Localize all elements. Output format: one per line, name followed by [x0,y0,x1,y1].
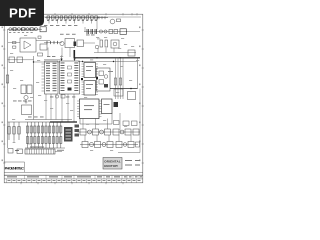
opto U14 [95,142,101,148]
net arrow into bank B (right) [74,56,76,61]
ladder column 5 [41,122,43,148]
wire left group bus [8,121,26,123]
transformer T101 secondary [27,85,32,94]
capacitor C131 [38,53,43,56]
capacitor C160 (dark) inside U7 [104,84,108,88]
transistor Q101 [60,41,64,45]
resistor R160 inside U7 [99,71,104,76]
row2 text entries [8,180,141,181]
opto U13 [82,142,88,148]
label right of CN3 [57,149,64,152]
zone tick marks left border [3,30,5,163]
small box J2 [17,149,23,154]
opto U11 [80,129,86,135]
jumper box J1 [8,149,13,154]
resistor R201 [117,19,121,22]
zone tick marks top border [21,13,137,15]
label text below bank [50,96,75,99]
filter box FL101 [40,27,46,32]
left small box K1 [9,57,15,63]
IC U7 internal label [108,71,113,72]
capacitor row C201-C203 top right [84,31,127,33]
value labels under top resistor string [47,19,97,22]
ground symbol near transformer [25,100,28,103]
ladder column 6 [45,122,47,148]
wire: output chain rail 2 [80,144,138,146]
opto U12 [93,129,99,135]
transistor Q202 [113,42,117,46]
bridge rectifier BD201 [111,40,119,48]
junction dots central [33,57,121,63]
svg-text:PHOENIXTEC: PHOENIXTEC [5,167,25,171]
connector bank CN102 outline [60,61,80,94]
wire to right frame [126,31,140,33]
wire: right vertical drop [137,58,139,89]
title block third line [4,178,143,180]
svg-text:ORIENTAL: ORIENTAL [104,159,121,163]
label row mid [60,34,95,36]
wire joining left boxes [8,59,34,61]
decoupling caps (dark) near U4/U5 [81,77,98,80]
inductor L201 [109,30,113,34]
wire: top right drop [96,18,98,30]
CN102 pin ladder column 1 [61,63,65,91]
wire: central rail B [34,61,61,63]
title block top line [4,171,143,173]
net arrow into bank B (left) [61,56,63,61]
IC U10 internal label [104,104,110,105]
row2 cell dividers [7,179,137,183]
transformer T101 primary [21,85,26,94]
diode D202 [104,30,107,33]
label TVF [15,150,19,151]
PDF badge [0,0,44,26]
zone tick marks bottom border [21,182,123,184]
relay RY201 [120,29,126,35]
caption above CN3 [30,146,44,149]
sense box R223 [114,89,123,96]
net label text left of arrows [47,55,55,58]
svg-text:PDF: PDF [9,6,36,21]
ladder column 3 [34,122,36,148]
small caption row under chain [44,24,77,27]
relay box RY101 [22,105,32,115]
stamp box (distributor) [103,158,122,170]
resistor R211 [100,40,103,47]
wire: mid rail [44,42,62,44]
control sub-circuit box U101 [20,38,36,52]
bottom bus of ladder [25,147,65,149]
connector block CN2 (dark) [64,127,73,142]
scattered reference designator texts [10,35,139,151]
wire out of U101 [36,40,50,42]
zone letters left border [2,27,3,162]
wire: left vertical rail [7,29,9,148]
connector CN301 [125,129,131,135]
resistor R161 inside U7 [99,80,104,85]
value labels under left chain [9,31,33,34]
sheet outer border frame [4,14,143,183]
wire from CN3 [55,151,62,153]
relay RY304 [116,142,122,148]
ladder column 7 [49,122,51,148]
resistor network RN101 [77,40,84,47]
wire: vertical net group right of U7 [116,58,124,99]
snubber box RC201 [128,50,135,56]
wire: central rail A [44,59,60,61]
wire: top input rail [45,17,99,19]
resistor R221 [114,78,116,85]
wire: right mid rail [94,52,136,54]
stacked modules M1-M3 left of chain [75,125,80,137]
caption above ladder [28,116,44,119]
wire drops to bus [98,48,114,53]
connector CN303 [128,142,134,148]
IC U10 [102,99,113,114]
fuse/resistor string F101 R121-R126 [9,28,38,31]
resistor R222 [119,78,121,85]
wire: riser to cap row [84,27,86,32]
power bus (heavy) [75,57,140,59]
wire drops into chain 1 [83,119,108,130]
IC U4 internal label [84,66,113,110]
sheet inner border line (top) [4,16,141,18]
connector CN302 [133,129,139,135]
resistor R231 [123,121,129,126]
signal bus y88 [110,88,138,90]
transistor Q103 below bank [55,95,58,98]
ladder column 1 [26,122,28,148]
CN101 external pins [42,64,45,91]
relay RY302 [113,129,119,135]
zone tick marks right border [142,30,144,163]
ladder column 8 [52,122,54,148]
driver box U8 [128,92,136,100]
routing loop under MCU [80,114,112,125]
CN102 pin ladder column 2 [74,63,78,91]
wire: left input rail [8,28,43,30]
zone letters right border [139,27,140,162]
wire: vertical net x120 [119,113,121,130]
wire into U101 [8,42,20,44]
MCU U9 [80,99,100,119]
wire under chain 2 [118,152,140,154]
wire: output chain rail 1 [78,131,141,133]
transistor Q203 [95,45,99,49]
transistor Q204 inside U7 [104,75,108,79]
title block second line [4,174,143,176]
junction node on bus [130,88,132,90]
resistor R150 below bank [61,95,65,99]
capacitor bank C141-C144 [47,41,58,44]
transistor Q304 [90,143,94,147]
ladder column 4 [38,122,40,148]
resistor R132 [13,46,16,48]
wire stubs below mid rail [48,48,70,58]
CN101 pin ladder column 1 [46,63,50,91]
crystal X1 (dark) [114,102,119,107]
ladder column 10 [60,122,62,148]
transistor Q102 [24,95,28,99]
series bars between elements [13,28,34,31]
resistor R141 on left rail [6,75,8,83]
IC U4 [84,63,96,78]
transistor Q306 [123,143,127,147]
wire stubs dropping from top rail [49,19,92,24]
wires from banks down to ladder bus [46,94,74,122]
resistor R212 [105,40,108,47]
regulator U103 [65,39,75,48]
heat-sink bar (dark) [74,50,76,58]
links between chain rows [85,135,131,142]
relay RY301 [105,129,111,135]
resistor R232 [132,121,138,126]
connector bank CN101 outline [45,61,59,94]
transistor Q305 [102,143,106,147]
ground symbol below ladder left [13,140,16,143]
left resistors R301 R302 R303 [8,122,20,140]
diode D201 [99,30,102,33]
op-amp U101A triangle [24,41,31,49]
inductor L202 [114,30,118,34]
bus above ladder [25,119,72,121]
transistor Q201 [110,19,115,24]
diode pair D101 [38,36,41,38]
row1 cell dividers [25,175,140,179]
wire RN101 to right [84,42,96,44]
resistor R131 [13,42,16,44]
sensor box U104 [17,57,23,63]
U4/U5 pin stubs [82,64,99,95]
transistor Q302 [100,130,104,134]
ladder column 9 [56,122,58,148]
IC U5 internal label [86,84,93,85]
resistor R230 [114,121,120,125]
svg-text:ENOTOP!: ENOTOP! [104,164,118,168]
comparator box U102 [40,44,47,50]
notes right of stamp [125,160,140,166]
CN101 pin ladder column 2 [53,63,57,91]
label text row [13,100,32,103]
resistor string R101-R112 along top rail [47,16,98,19]
ladder column 2 [30,122,32,148]
relay RY303 [107,142,113,148]
secondary bus [78,61,138,63]
capacitor C145 (dark) [74,42,77,47]
row1 text entries [7,176,142,177]
top-right capacitors C204 C205 [97,16,108,19]
wire: long vertical net at x33 [33,56,35,120]
driver stage box U7 [97,68,111,91]
transistor Q303 [120,130,124,134]
CN102 interior parts [68,66,72,83]
connector CN3 pin strip [25,149,55,154]
transistor Q301 [88,130,92,134]
IC U5 [84,81,96,96]
bypass cap (dark) in CN102 [68,88,72,91]
wire: right rail continuation [139,89,141,133]
title block: company cell border [4,162,24,172]
MCU U9 internal label [84,105,94,106]
heavy bus above ladder [50,121,77,123]
connector CN304 [136,142,140,147]
wire to right frame from chains [139,132,141,153]
